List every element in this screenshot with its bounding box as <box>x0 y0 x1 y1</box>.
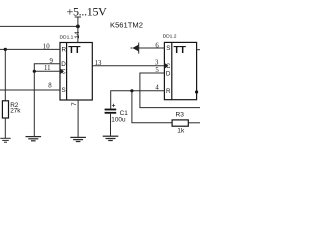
wire: pin 13 to pin 3 <box>92 65 164 67</box>
svg-text:+5...15V: +5...15V <box>67 4 108 18</box>
svg-text:27k: 27k <box>10 108 21 115</box>
svg-text:1k: 1k <box>177 128 185 135</box>
wire: junction down to ground <box>33 71 35 136</box>
svg-text:R: R <box>166 88 171 95</box>
svg-text:3: 3 <box>155 60 159 67</box>
ground under C1 <box>103 136 119 140</box>
wire: pin 4 (R) to C1 <box>111 91 165 109</box>
node: rail junction <box>76 25 80 29</box>
svg-text:6: 6 <box>155 42 159 49</box>
svg-text:100u: 100u <box>111 116 126 123</box>
wire: pin 7 to ground <box>77 100 79 137</box>
svg-text:R3: R3 <box>176 112 185 119</box>
input arrow into pin 6 <box>131 43 165 54</box>
svg-text:7: 7 <box>71 102 78 106</box>
svg-text:DD1.2: DD1.2 <box>163 34 177 40</box>
ground under R2 <box>0 138 10 142</box>
svg-text:TT: TT <box>174 45 187 56</box>
svg-text:S: S <box>62 87 66 94</box>
svg-text:R: R <box>62 47 67 54</box>
op-amp: flip-flop DD1.2 body <box>164 42 196 99</box>
svg-text:8: 8 <box>48 83 52 90</box>
resistor R3 <box>172 112 200 135</box>
svg-text:TT: TT <box>68 45 81 56</box>
svg-text:9: 9 <box>50 58 54 65</box>
capacitor C1 <box>105 103 129 137</box>
DD1.2 dynamic input chevron on C <box>164 63 168 69</box>
wire: pin 5 (D) loop down and right <box>140 73 200 108</box>
wire: junction down to R3 <box>132 91 172 123</box>
wire: terminal to pin 14 <box>77 17 79 43</box>
wire: pin 10 (R) from left edge <box>0 48 60 50</box>
resistor R2 <box>2 49 21 138</box>
wire: pin 11 (C) <box>34 70 60 72</box>
svg-text:10: 10 <box>43 44 50 51</box>
svg-text:13: 13 <box>95 60 102 67</box>
svg-text:D: D <box>61 61 66 68</box>
wire: pin 1 output stub <box>197 49 200 51</box>
svg-text:14: 14 <box>74 31 81 39</box>
node: 9/11 junction <box>33 70 36 73</box>
power terminal +5...15V <box>67 4 108 18</box>
DD1.1 dynamic input chevron on C <box>60 68 64 74</box>
ground under pin 7 <box>70 137 86 141</box>
svg-text:11: 11 <box>44 65 51 72</box>
svg-text:K561TM2: K561TM2 <box>110 20 143 29</box>
wire: pin 9 (D) <box>34 64 60 72</box>
svg-text:S: S <box>166 45 170 52</box>
svg-text:DD1.1: DD1.1 <box>60 34 74 40</box>
node: dot on DD1.2 right edge <box>195 90 198 93</box>
op-amp: flip-flop DD1.1 body <box>60 43 92 101</box>
node: R2 junction <box>4 48 7 51</box>
wire: +V rail <box>0 25 78 27</box>
wire: pin 8 (S) from left edge <box>0 89 60 91</box>
svg-text:+: + <box>112 103 116 110</box>
svg-text:D: D <box>166 70 171 77</box>
node: R3 branch junction <box>130 89 133 92</box>
ground under 9/11 <box>26 137 42 141</box>
